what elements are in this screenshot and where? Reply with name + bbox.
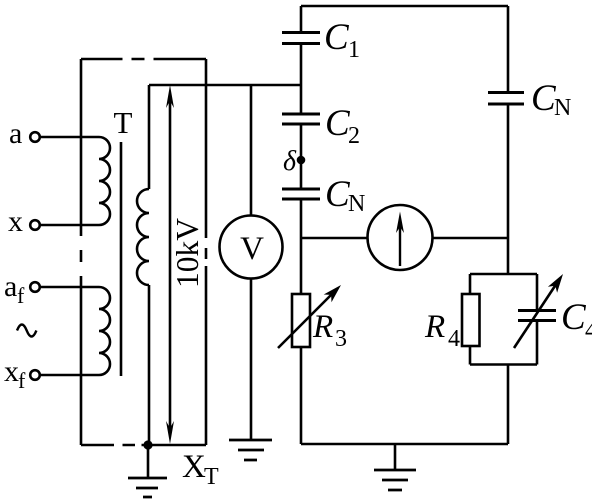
capacitor C4 plates <box>518 311 556 321</box>
svg-text:C: C <box>324 17 350 58</box>
transformer enclosure box left edge (chain line) <box>80 59 83 445</box>
svg-text:V: V <box>240 231 264 267</box>
wire R3 to bottom <box>300 347 303 444</box>
10kV arrow head top <box>166 85 174 108</box>
bridge bottom wire <box>301 443 508 446</box>
resistor R3 body <box>292 294 310 347</box>
transformer secondary winding <box>137 189 149 285</box>
svg-text:1: 1 <box>348 37 360 63</box>
galvanometer circle <box>368 205 433 270</box>
terminal a <box>30 132 40 142</box>
wire af to primary <box>40 286 99 289</box>
transformer core <box>120 142 123 376</box>
wire x to primary <box>40 224 99 227</box>
svg-text:δ: δ <box>283 146 297 177</box>
wire R4C4 to bottom <box>507 365 510 445</box>
svg-text:f: f <box>18 368 26 393</box>
10kV measuring arrow line <box>169 96 172 434</box>
svg-text:T: T <box>114 105 133 140</box>
transformer enclosure box right edge (chain line) <box>205 59 208 445</box>
svg-text:N: N <box>348 191 365 217</box>
svg-text:x: x <box>4 355 19 388</box>
C4 arrow head <box>548 274 563 293</box>
galvanometer left wire <box>301 237 368 240</box>
svg-text:N: N <box>554 95 571 121</box>
voltmeter bottom wire <box>250 279 253 441</box>
capacitor C1 <box>282 33 320 44</box>
node XT junction dot <box>143 440 152 449</box>
galvanometer needle <box>399 227 401 266</box>
bridge top wire <box>301 5 508 8</box>
galvanometer needle arrow head <box>396 212 404 234</box>
capacitor CN (standard) <box>282 189 320 199</box>
capacitor CN (reference) <box>488 93 524 105</box>
voltmeter top wire <box>250 85 253 216</box>
resistor R3 adjust arrow <box>278 293 333 348</box>
transformer T primary winding lower <box>99 287 110 375</box>
R3 arrow head <box>324 285 341 302</box>
resistor R4 body <box>462 294 480 346</box>
wire C1 to C2 <box>300 44 303 114</box>
svg-text:10kV: 10kV <box>170 218 205 288</box>
transformer T primary winding upper <box>99 137 110 225</box>
svg-text:X: X <box>182 449 206 485</box>
wire high-voltage horizontal to bridge <box>149 84 301 87</box>
R4 C4 parallel loop <box>470 274 537 365</box>
transformer enclosure box bottom edge (chain line) <box>81 444 206 447</box>
capacitor C4 adjust arrow <box>514 284 557 348</box>
svg-text:R: R <box>312 309 333 345</box>
bridge ground stem <box>394 444 397 470</box>
bridge ground <box>374 470 416 490</box>
svg-text:2: 2 <box>348 123 360 149</box>
svg-text:T: T <box>204 464 219 490</box>
ground at XT <box>147 445 150 478</box>
wire secondary bottom lead <box>148 285 151 445</box>
wire secondary top lead <box>148 85 151 189</box>
svg-text:C: C <box>561 297 587 338</box>
wire CN to R4C4 box <box>507 105 510 275</box>
wire a to primary <box>40 136 99 139</box>
wire xf to primary <box>40 374 99 377</box>
terminal xf <box>30 370 40 380</box>
terminal af <box>30 282 40 292</box>
wire top to C1 <box>300 6 303 32</box>
10kV arrow head bottom <box>166 421 174 444</box>
svg-text:4: 4 <box>585 318 592 344</box>
capacitor C2 <box>282 114 320 124</box>
node delta dot <box>297 156 306 165</box>
wire CN to R3 <box>300 200 303 295</box>
transformer enclosure box top edge (chain line) <box>81 58 206 61</box>
bridge right wire top <box>507 6 510 92</box>
svg-text:4: 4 <box>448 326 460 352</box>
AC source symbol ~ <box>17 325 36 337</box>
galvanometer right wire <box>433 237 509 240</box>
svg-text:3: 3 <box>335 326 347 352</box>
svg-text:a: a <box>4 270 17 303</box>
terminal x <box>30 220 40 230</box>
svg-text:a: a <box>9 117 22 150</box>
voltmeter V circle <box>220 216 283 279</box>
svg-text:x: x <box>8 205 23 238</box>
wire C2 to CN <box>300 125 303 189</box>
svg-text:f: f <box>17 283 25 308</box>
voltmeter ground <box>229 440 272 460</box>
svg-text:R: R <box>424 309 445 345</box>
